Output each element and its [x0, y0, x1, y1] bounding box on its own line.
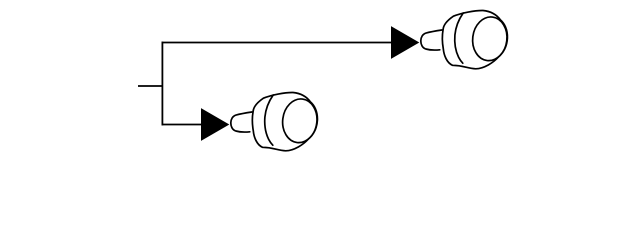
socket part (upper)	[421, 10, 510, 68]
wire: vertical connector	[161, 42, 163, 126]
wire: top horizontal	[162, 42, 395, 44]
arrow to lower socket	[201, 108, 229, 141]
wire: left stub	[138, 85, 162, 87]
arrow to upper socket	[391, 26, 419, 59]
socket part (lower)	[231, 92, 320, 150]
wire: bottom horizontal	[162, 124, 205, 126]
